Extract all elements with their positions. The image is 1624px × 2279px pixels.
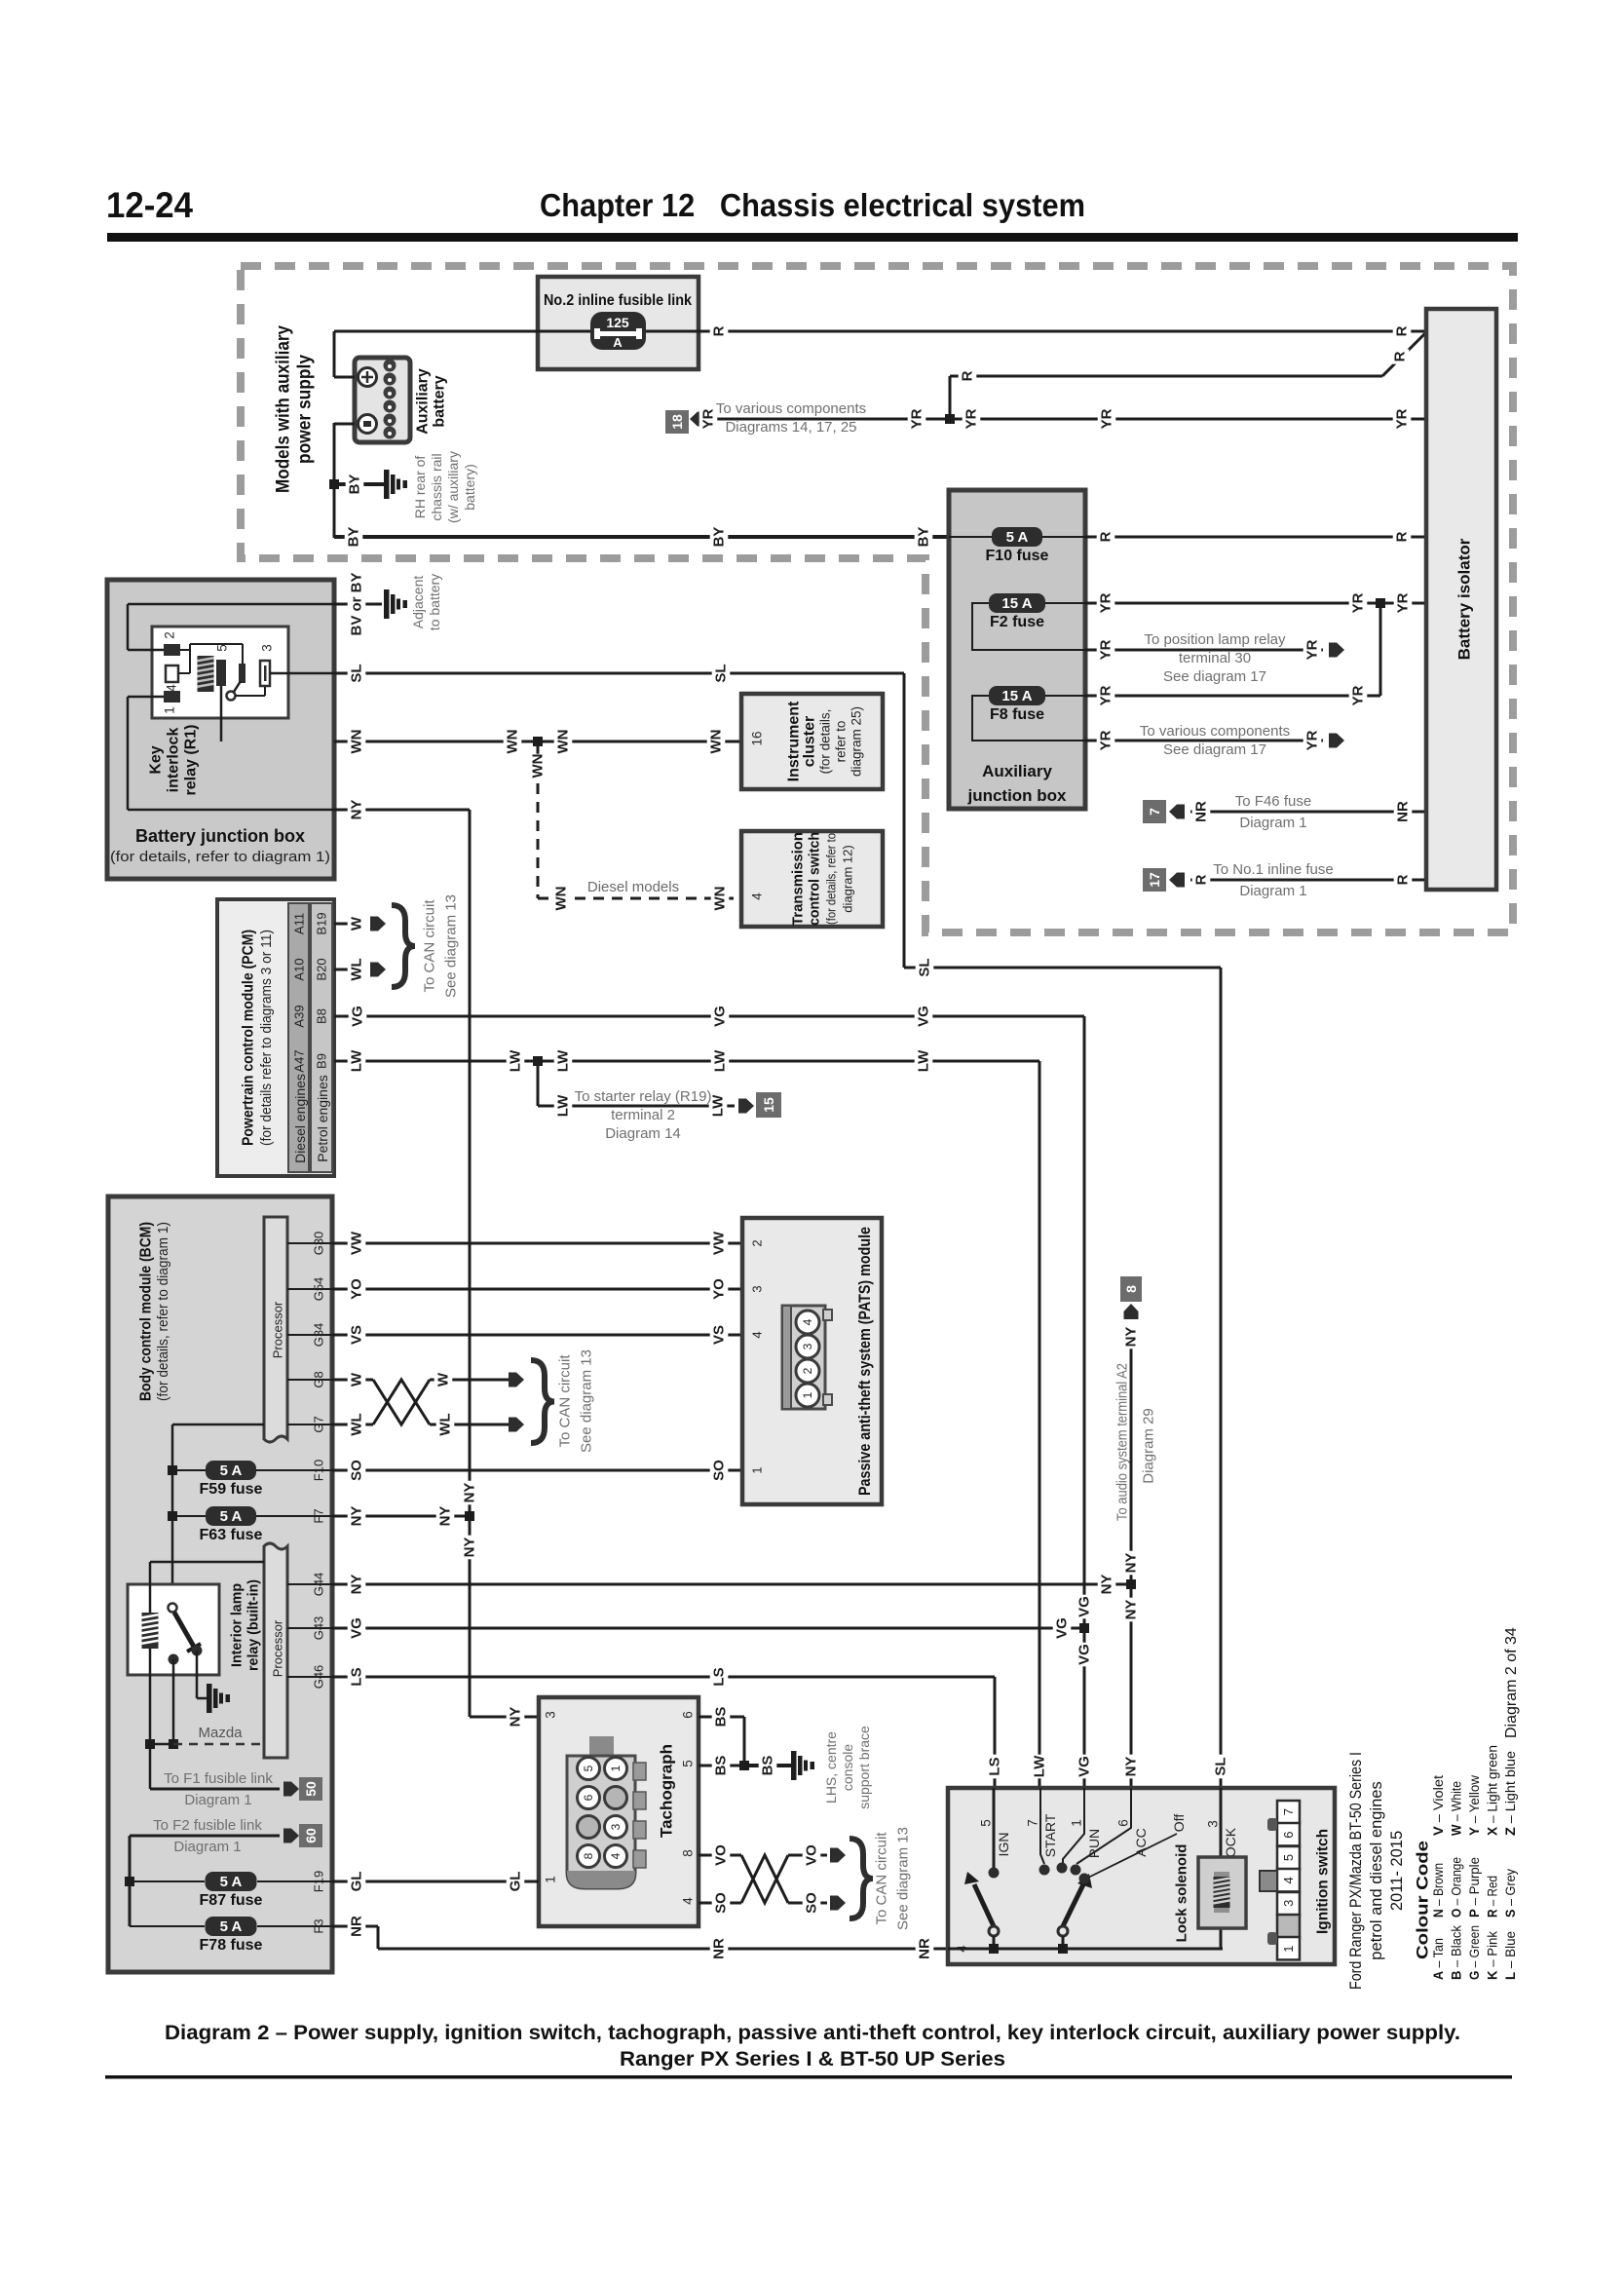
svg-text:8: 8 xyxy=(681,1849,696,1857)
svg-text:YR: YR xyxy=(1350,685,1367,705)
svg-text:Lock solenoid: Lock solenoid xyxy=(1174,1844,1190,1943)
svg-text:WN: WN xyxy=(349,730,365,754)
svg-text:L – Blue: L – Blue xyxy=(1503,1931,1518,1980)
svg-text:1: 1 xyxy=(163,706,177,714)
svg-text:Auxiliary: Auxiliary xyxy=(415,368,432,435)
svg-text:R: R xyxy=(1193,874,1210,885)
svg-text:VG: VG xyxy=(350,1006,366,1027)
svg-text:1: 1 xyxy=(801,1391,814,1398)
svg-text:3: 3 xyxy=(750,1285,765,1292)
svg-text:LHS, centre: LHS, centre xyxy=(823,1731,839,1804)
svg-text:NR: NR xyxy=(1395,801,1412,822)
svg-text:Powertrain control module (PCM: Powertrain control module (PCM) xyxy=(241,930,257,1146)
svg-text:F19: F19 xyxy=(312,1871,326,1892)
svg-text:VO: VO xyxy=(804,1844,820,1866)
svg-text:2: 2 xyxy=(750,1239,765,1246)
svg-text:3: 3 xyxy=(1206,1820,1221,1828)
svg-text:YR: YR xyxy=(1098,685,1114,705)
svg-text:power supply: power supply xyxy=(295,355,316,464)
svg-text:terminal 2: terminal 2 xyxy=(611,1107,675,1123)
svg-text:Battery isolator: Battery isolator xyxy=(1455,538,1474,660)
svg-text:5: 5 xyxy=(215,644,230,652)
svg-text:A39: A39 xyxy=(292,1005,307,1027)
svg-text:YR: YR xyxy=(909,408,925,429)
svg-text:battery): battery) xyxy=(462,464,477,510)
svg-text:Battery junction box: Battery junction box xyxy=(135,826,305,846)
svg-text:VG: VG xyxy=(1076,1644,1093,1665)
svg-text:7: 7 xyxy=(1147,808,1162,816)
svg-text:NY: NY xyxy=(349,800,365,820)
svg-text:3: 3 xyxy=(609,1823,623,1830)
svg-text:17: 17 xyxy=(1147,872,1162,888)
svg-text:A11: A11 xyxy=(292,913,307,934)
svg-text:See diagram 13: See diagram 13 xyxy=(443,894,460,998)
svg-text:VG: VG xyxy=(712,1006,729,1027)
svg-text:2: 2 xyxy=(801,1367,814,1374)
svg-text:BY: BY xyxy=(347,475,363,495)
svg-text:R: R xyxy=(1394,325,1411,336)
svg-text:LW: LW xyxy=(508,1049,524,1072)
svg-text:diagram 12): diagram 12) xyxy=(841,845,855,912)
svg-text:To CAN circuit: To CAN circuit xyxy=(874,1832,890,1925)
svg-text:SL: SL xyxy=(917,958,933,976)
svg-text:YR: YR xyxy=(1098,592,1114,613)
svg-text:125: 125 xyxy=(606,315,629,330)
svg-text:F10 fuse: F10 fuse xyxy=(986,548,1049,564)
svg-text:4: 4 xyxy=(750,893,765,900)
svg-text:4: 4 xyxy=(955,1945,969,1952)
svg-text:Colour Code: Colour Code xyxy=(1414,1841,1432,1959)
svg-text:BS: BS xyxy=(760,1756,776,1776)
svg-text:Chapter 12 Chassis electrica: Chapter 12 Chassis electrical system xyxy=(540,187,1085,223)
svg-text:8: 8 xyxy=(1123,1285,1139,1293)
svg-text:VS: VS xyxy=(349,1325,365,1345)
svg-text:diagram 25): diagram 25) xyxy=(850,706,864,777)
svg-text:YR: YR xyxy=(1394,408,1411,429)
svg-text:VO: VO xyxy=(713,1844,730,1866)
svg-text:BY: BY xyxy=(916,527,932,548)
svg-text:G – Green: G – Green xyxy=(1467,1925,1482,1980)
svg-text:G34: G34 xyxy=(312,1323,326,1348)
svg-text:F78 fuse: F78 fuse xyxy=(200,1937,263,1954)
svg-text:interlock: interlock xyxy=(166,728,182,793)
svg-text:LW: LW xyxy=(555,1094,572,1117)
svg-text:Ford Ranger PX/Mazda BT-50 Ser: Ford Ranger PX/Mazda BT-50 Series I xyxy=(1347,1752,1365,1990)
svg-text:1: 1 xyxy=(544,1876,558,1883)
svg-text:To starter relay (R19): To starter relay (R19) xyxy=(575,1088,712,1105)
svg-text:No.2 inline fusible link: No.2 inline fusible link xyxy=(544,292,692,309)
svg-text:X – Light green: X – Light green xyxy=(1486,1745,1500,1836)
svg-text:LW: LW xyxy=(916,1049,932,1072)
svg-text:To F1 fusible link: To F1 fusible link xyxy=(164,1770,273,1787)
svg-text:K – Pink: K – Pink xyxy=(1486,1931,1500,1980)
svg-text:F63 fuse: F63 fuse xyxy=(200,1527,263,1543)
svg-text:battery: battery xyxy=(432,375,448,427)
svg-text:SO: SO xyxy=(713,1892,730,1914)
svg-text:Processor: Processor xyxy=(271,1619,285,1677)
svg-text:6: 6 xyxy=(582,1794,595,1801)
svg-text:15 A: 15 A xyxy=(1001,595,1032,612)
svg-text:NR: NR xyxy=(917,1938,933,1959)
svg-text:W – White: W – White xyxy=(1450,1781,1464,1836)
svg-text:NY: NY xyxy=(1123,1327,1140,1348)
svg-text:(for details, refer to diagram: (for details, refer to diagram 1) xyxy=(156,1222,171,1401)
svg-text:SL: SL xyxy=(349,664,365,682)
svg-text:BS: BS xyxy=(713,1756,730,1776)
svg-text:support brace: support brace xyxy=(856,1726,872,1809)
svg-text:Diagram 1: Diagram 1 xyxy=(184,1792,251,1808)
svg-text:To F2 fusible link: To F2 fusible link xyxy=(153,1817,262,1834)
svg-text:LW: LW xyxy=(710,1094,727,1117)
svg-text:Off: Off xyxy=(1171,1814,1187,1833)
svg-text:Z – Light blue: Z – Light blue xyxy=(1503,1751,1518,1836)
svg-text:To No.1 inline fuse: To No.1 inline fuse xyxy=(1213,861,1333,878)
svg-text:NY: NY xyxy=(1099,1575,1115,1595)
svg-text:B9: B9 xyxy=(315,1053,329,1069)
svg-text:5 A: 5 A xyxy=(220,1462,243,1479)
svg-text:B8: B8 xyxy=(315,1008,329,1024)
svg-text:4: 4 xyxy=(609,1852,623,1859)
svg-text:NY: NY xyxy=(437,1506,454,1527)
svg-text:VW: VW xyxy=(349,1231,365,1255)
svg-text:G8: G8 xyxy=(312,1371,326,1387)
svg-text:NY: NY xyxy=(462,1538,478,1558)
svg-text:YR: YR xyxy=(700,408,717,429)
svg-text:LW: LW xyxy=(712,1049,729,1072)
svg-text:NR: NR xyxy=(711,1938,728,1959)
svg-text:5 A: 5 A xyxy=(220,1918,243,1935)
svg-text:1: 1 xyxy=(750,1466,765,1473)
svg-text:Mazda: Mazda xyxy=(198,1725,243,1741)
svg-text:2: 2 xyxy=(163,631,177,639)
svg-text:G44: G44 xyxy=(312,1573,326,1597)
svg-text:R: R xyxy=(1098,531,1114,542)
svg-text:3: 3 xyxy=(260,644,275,652)
svg-text:F87 fuse: F87 fuse xyxy=(200,1892,263,1909)
svg-text:LW: LW xyxy=(349,1049,365,1072)
svg-text:RUN: RUN xyxy=(1086,1829,1102,1858)
svg-text:NR: NR xyxy=(1193,801,1210,822)
svg-text:WL: WL xyxy=(437,1413,454,1435)
svg-text:SO: SO xyxy=(711,1460,728,1481)
svg-text:LW: LW xyxy=(1032,1755,1048,1777)
svg-text:6: 6 xyxy=(1281,1831,1296,1838)
svg-text:R: R xyxy=(1392,351,1409,361)
svg-text:SL: SL xyxy=(713,664,730,682)
svg-text:3: 3 xyxy=(544,1711,558,1719)
svg-text:BY: BY xyxy=(346,527,362,548)
svg-text:4: 4 xyxy=(801,1318,814,1325)
svg-text:5 A: 5 A xyxy=(1006,529,1029,546)
svg-text:16: 16 xyxy=(750,731,765,745)
svg-text:12-24: 12-24 xyxy=(106,185,193,225)
svg-text:WN: WN xyxy=(553,887,570,911)
svg-text:LS: LS xyxy=(711,1667,728,1686)
svg-text:18: 18 xyxy=(669,414,685,430)
svg-text:BY: BY xyxy=(711,527,728,548)
svg-text:F2 fuse: F2 fuse xyxy=(990,614,1044,630)
svg-text:Models with auxiliary: Models with auxiliary xyxy=(274,325,294,493)
svg-text:A47: A47 xyxy=(292,1049,307,1072)
svg-text:relay (R1): relay (R1) xyxy=(183,725,200,796)
svg-text:Diagram 29: Diagram 29 xyxy=(1141,1408,1157,1484)
svg-text:B – Black: B – Black xyxy=(1450,1925,1464,1980)
svg-text:S – Grey: S – Grey xyxy=(1503,1869,1518,1918)
svg-text:B19: B19 xyxy=(315,912,329,934)
svg-text:G46: G46 xyxy=(312,1665,326,1690)
svg-text:cluster: cluster xyxy=(802,716,818,767)
svg-text:NY: NY xyxy=(349,1575,365,1595)
svg-text:NY: NY xyxy=(508,1707,524,1728)
svg-text:Interior lamp: Interior lamp xyxy=(229,1583,245,1667)
svg-text:1: 1 xyxy=(1281,1945,1296,1952)
svg-text:G7: G7 xyxy=(312,1416,326,1432)
svg-text:Key: Key xyxy=(148,745,165,774)
svg-text:refer to: refer to xyxy=(834,721,849,763)
svg-text:WL: WL xyxy=(349,958,365,980)
svg-text:A10: A10 xyxy=(292,958,307,980)
svg-text:Diagram 2 of 34: Diagram 2 of 34 xyxy=(1503,1627,1520,1738)
svg-text:To position lamp relay: To position lamp relay xyxy=(1144,631,1286,648)
svg-text:To various components: To various components xyxy=(1140,723,1290,740)
svg-text:VS: VS xyxy=(711,1325,728,1345)
svg-text:VG: VG xyxy=(1076,1596,1093,1617)
svg-text:YO: YO xyxy=(349,1278,365,1300)
svg-text:5: 5 xyxy=(1281,1854,1296,1861)
svg-text:WN: WN xyxy=(555,730,572,754)
svg-text:Diagram 1: Diagram 1 xyxy=(173,1839,241,1855)
svg-text:See diagram 13: See diagram 13 xyxy=(579,1349,595,1453)
svg-text:VG: VG xyxy=(349,1617,365,1639)
svg-text:NY: NY xyxy=(462,1483,478,1503)
svg-text:6: 6 xyxy=(1116,1819,1131,1827)
svg-text:petrol and diesel engines: petrol and diesel engines xyxy=(1368,1781,1385,1959)
svg-text:BS: BS xyxy=(713,1707,730,1728)
svg-text:(for details, refer to: (for details, refer to xyxy=(824,833,839,925)
svg-text:console: console xyxy=(840,1744,855,1791)
svg-text:4: 4 xyxy=(681,1897,696,1905)
svg-text:4: 4 xyxy=(750,1331,765,1338)
svg-text:BV or BY: BV or BY xyxy=(349,572,365,635)
svg-text:5: 5 xyxy=(681,1760,696,1767)
svg-text:LS: LS xyxy=(349,1667,365,1686)
svg-text:WN: WN xyxy=(505,730,521,754)
svg-text:RH rear of: RH rear of xyxy=(412,456,428,519)
svg-text:YR: YR xyxy=(1098,730,1114,750)
svg-text:VG: VG xyxy=(1076,1756,1093,1777)
svg-text:YR: YR xyxy=(1350,592,1367,613)
svg-text:To CAN circuit: To CAN circuit xyxy=(422,899,438,993)
svg-text:4: 4 xyxy=(1281,1877,1296,1883)
svg-text:A: A xyxy=(613,335,623,350)
svg-text:Diesel models: Diesel models xyxy=(587,879,679,895)
svg-text:GL: GL xyxy=(349,1872,365,1892)
svg-text:WN: WN xyxy=(530,754,547,779)
svg-text:NY: NY xyxy=(349,1506,365,1527)
svg-text:7: 7 xyxy=(1026,1819,1040,1827)
svg-text:NY: NY xyxy=(1123,1757,1140,1777)
svg-text:VG: VG xyxy=(916,1006,932,1027)
svg-text:Transmission: Transmission xyxy=(790,832,807,926)
svg-text:(for details, refer to diagram: (for details, refer to diagram 1) xyxy=(110,849,330,865)
svg-text:See diagram 17: See diagram 17 xyxy=(1163,668,1266,685)
svg-text:R: R xyxy=(711,325,728,336)
svg-text:R: R xyxy=(960,370,976,381)
svg-text:NR: NR xyxy=(349,1916,365,1937)
svg-text:P – Purple: P – Purple xyxy=(1467,1857,1482,1918)
svg-text:8: 8 xyxy=(582,1852,595,1859)
svg-text:VG: VG xyxy=(1054,1617,1071,1639)
svg-text:15: 15 xyxy=(761,1097,776,1113)
svg-text:O – Orange: O – Orange xyxy=(1450,1857,1464,1918)
svg-text:IGN: IGN xyxy=(996,1833,1011,1857)
svg-text:Processor: Processor xyxy=(271,1301,285,1358)
svg-text:Tachograph: Tachograph xyxy=(658,1744,676,1838)
svg-text:Diagram 1: Diagram 1 xyxy=(1239,883,1306,899)
svg-text:terminal 30: terminal 30 xyxy=(1179,650,1251,666)
svg-text:Diagram 1: Diagram 1 xyxy=(1239,815,1306,831)
svg-text:chassis rail: chassis rail xyxy=(429,453,444,520)
svg-text:WN: WN xyxy=(708,730,725,754)
svg-text:V – Violet: V – Violet xyxy=(1431,1775,1446,1836)
svg-text:R – Red: R – Red xyxy=(1486,1876,1500,1918)
svg-text:WL: WL xyxy=(349,1413,365,1435)
svg-text:LW: LW xyxy=(555,1049,572,1072)
svg-text:G30: G30 xyxy=(312,1232,326,1256)
svg-text:SO: SO xyxy=(349,1460,365,1481)
svg-text:7: 7 xyxy=(1281,1808,1296,1815)
svg-text:5 A: 5 A xyxy=(220,1508,243,1525)
svg-text:Diagram 2 – Power supply, igni: Diagram 2 – Power supply, ignition switc… xyxy=(165,2022,1460,2044)
svg-text:Diagrams 14, 17, 25: Diagrams 14, 17, 25 xyxy=(725,419,856,436)
svg-text:15 A: 15 A xyxy=(1001,688,1032,704)
svg-text:To F46 fuse: To F46 fuse xyxy=(1235,793,1311,810)
svg-text:Diagram 14: Diagram 14 xyxy=(605,1125,681,1142)
svg-text:relay (built-in): relay (built-in) xyxy=(245,1579,262,1671)
svg-text:W: W xyxy=(349,1372,365,1386)
svg-text:W: W xyxy=(349,916,365,931)
svg-text:1: 1 xyxy=(1070,1819,1084,1827)
svg-text:R: R xyxy=(1394,531,1411,542)
svg-text:Petrol engines: Petrol engines xyxy=(315,1075,330,1162)
svg-text:SL: SL xyxy=(1213,1757,1229,1775)
svg-text:1: 1 xyxy=(609,1765,623,1771)
svg-text:3: 3 xyxy=(1281,1900,1296,1907)
svg-text:To audio system terminal A2: To audio system terminal A2 xyxy=(1114,1363,1131,1521)
svg-text:6: 6 xyxy=(681,1711,696,1719)
svg-text:Adjacent: Adjacent xyxy=(410,576,426,629)
svg-text:A – Tan: A – Tan xyxy=(1431,1938,1446,1980)
svg-text:F3: F3 xyxy=(312,1918,326,1933)
svg-text:GL: GL xyxy=(508,1872,524,1892)
svg-text:See diagram 13: See diagram 13 xyxy=(895,1827,912,1930)
svg-text:4: 4 xyxy=(165,684,179,692)
svg-text:R: R xyxy=(1395,874,1412,885)
svg-text:F7: F7 xyxy=(312,1508,326,1523)
svg-text:NY: NY xyxy=(1123,1553,1140,1574)
svg-text:YO: YO xyxy=(711,1278,728,1300)
svg-text:YR: YR xyxy=(1304,639,1321,660)
svg-text:5: 5 xyxy=(582,1765,595,1771)
svg-text:NY: NY xyxy=(1123,1600,1140,1620)
svg-text:G54: G54 xyxy=(312,1277,326,1302)
svg-text:(for details refer to diagrams: (for details refer to diagrams 3 or 11) xyxy=(259,930,275,1146)
svg-text:(for details,: (for details, xyxy=(818,709,833,775)
svg-text:START: START xyxy=(1042,1813,1058,1857)
svg-text:F8 fuse: F8 fuse xyxy=(990,706,1044,723)
svg-text:LS: LS xyxy=(987,1757,1003,1775)
svg-text:Y – Yellow: Y – Yellow xyxy=(1467,1775,1482,1836)
svg-text:Ignition switch: Ignition switch xyxy=(1315,1829,1332,1934)
svg-text:G43: G43 xyxy=(312,1616,326,1641)
svg-text:60: 60 xyxy=(303,1828,319,1843)
svg-text:VW: VW xyxy=(711,1231,728,1255)
svg-text:Body control module (BCM): Body control module (BCM) xyxy=(138,1222,155,1401)
svg-text:To CAN circuit: To CAN circuit xyxy=(557,1354,574,1448)
svg-text:N – Brown: N – Brown xyxy=(1431,1863,1446,1918)
svg-text:2011- 2015: 2011- 2015 xyxy=(1388,1831,1406,1911)
svg-text:Auxiliary: Auxiliary xyxy=(982,762,1052,780)
svg-text:YR: YR xyxy=(1304,730,1321,750)
svg-text:ACC: ACC xyxy=(1133,1828,1149,1857)
svg-text:control switch: control switch xyxy=(807,832,823,926)
svg-text:Ranger PX Series I & BT-50 UP: Ranger PX Series I & BT-50 UP Series xyxy=(620,2048,1005,2070)
svg-text:3: 3 xyxy=(801,1343,814,1349)
svg-text:YR: YR xyxy=(1099,408,1115,429)
svg-text:SO: SO xyxy=(804,1892,820,1914)
svg-text:B20: B20 xyxy=(315,958,329,980)
svg-text:F59 fuse: F59 fuse xyxy=(200,1481,263,1498)
svg-text:5 A: 5 A xyxy=(220,1874,243,1890)
svg-text:YR: YR xyxy=(1098,639,1114,660)
svg-text:To various components: To various components xyxy=(716,400,866,417)
svg-text:50: 50 xyxy=(303,1781,319,1797)
svg-text:F10: F10 xyxy=(312,1460,326,1481)
svg-text:YR: YR xyxy=(1395,592,1412,613)
svg-text:junction box: junction box xyxy=(966,786,1067,805)
svg-text:W: W xyxy=(435,1372,452,1386)
svg-text:Diesel engines: Diesel engines xyxy=(292,1074,308,1163)
svg-text:5: 5 xyxy=(979,1819,994,1827)
svg-text:Passive anti-theft system (PAT: Passive anti-theft system (PATS) module xyxy=(856,1227,874,1496)
svg-text:to battery: to battery xyxy=(427,574,442,630)
svg-text:WN: WN xyxy=(712,887,729,911)
svg-text:YR: YR xyxy=(963,408,980,429)
svg-text:See diagram 17: See diagram 17 xyxy=(1163,741,1266,758)
svg-text:(w/ auxiliary: (w/ auxiliary xyxy=(445,451,461,523)
svg-text:Instrument: Instrument xyxy=(786,701,803,781)
